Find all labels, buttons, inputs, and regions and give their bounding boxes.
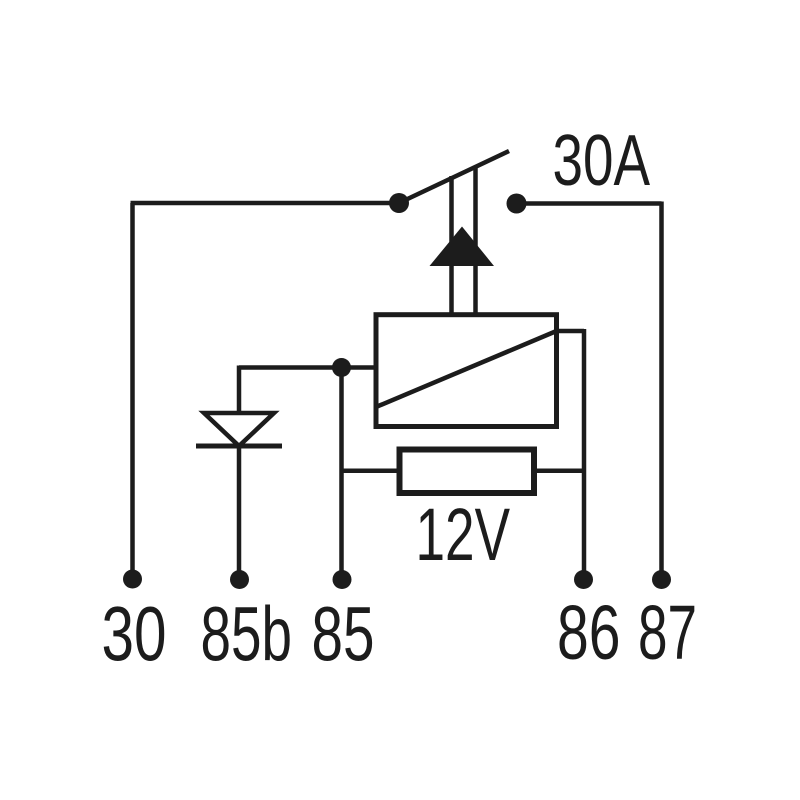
actuator left rod [449, 176, 454, 317]
wire diode bottom to terminal85b [237, 446, 242, 579]
relay coil K1 diagonal [376, 331, 557, 407]
svg-text:87: 87 [638, 590, 697, 676]
switch S1 lever [399, 151, 509, 203]
node terminal 30 [123, 570, 142, 589]
node switch right [507, 194, 527, 214]
svg-text:86: 86 [557, 590, 621, 676]
node terminal 85 [333, 570, 352, 589]
wire resistor right stub [534, 468, 584, 473]
svg-text:30A: 30A [553, 121, 651, 201]
node terminal 87 [652, 570, 671, 589]
node switch left [389, 193, 409, 213]
node junction 85 [332, 358, 351, 377]
wire diode top stub [237, 366, 242, 414]
svg-text:12V: 12V [416, 493, 511, 576]
wire terminal87 vertical [659, 202, 664, 580]
wire resistor left stub [342, 468, 400, 473]
svg-text:85: 85 [312, 592, 375, 678]
relay coil K1 box [376, 315, 557, 427]
wire terminal85 vertical [339, 368, 344, 580]
actuator arrow [430, 227, 495, 267]
wire terminal86 vertical [582, 329, 587, 579]
actuator right rod [473, 167, 478, 317]
svg-text:85b: 85b [201, 592, 293, 678]
node terminal 86 [574, 570, 593, 589]
wire top-right horizontal [517, 201, 662, 206]
wire coil to terminal86 horizontal [557, 329, 585, 334]
wire terminal30 vertical [130, 203, 135, 579]
diode D1 cathode bar [196, 444, 282, 449]
wire top-left horizontal [131, 201, 400, 206]
diode D1 triangle [204, 413, 274, 446]
resistor R1 body [400, 450, 535, 494]
wire node85b horizontal [239, 365, 376, 370]
node terminal 85b [230, 570, 249, 589]
svg-text:30: 30 [102, 592, 167, 678]
